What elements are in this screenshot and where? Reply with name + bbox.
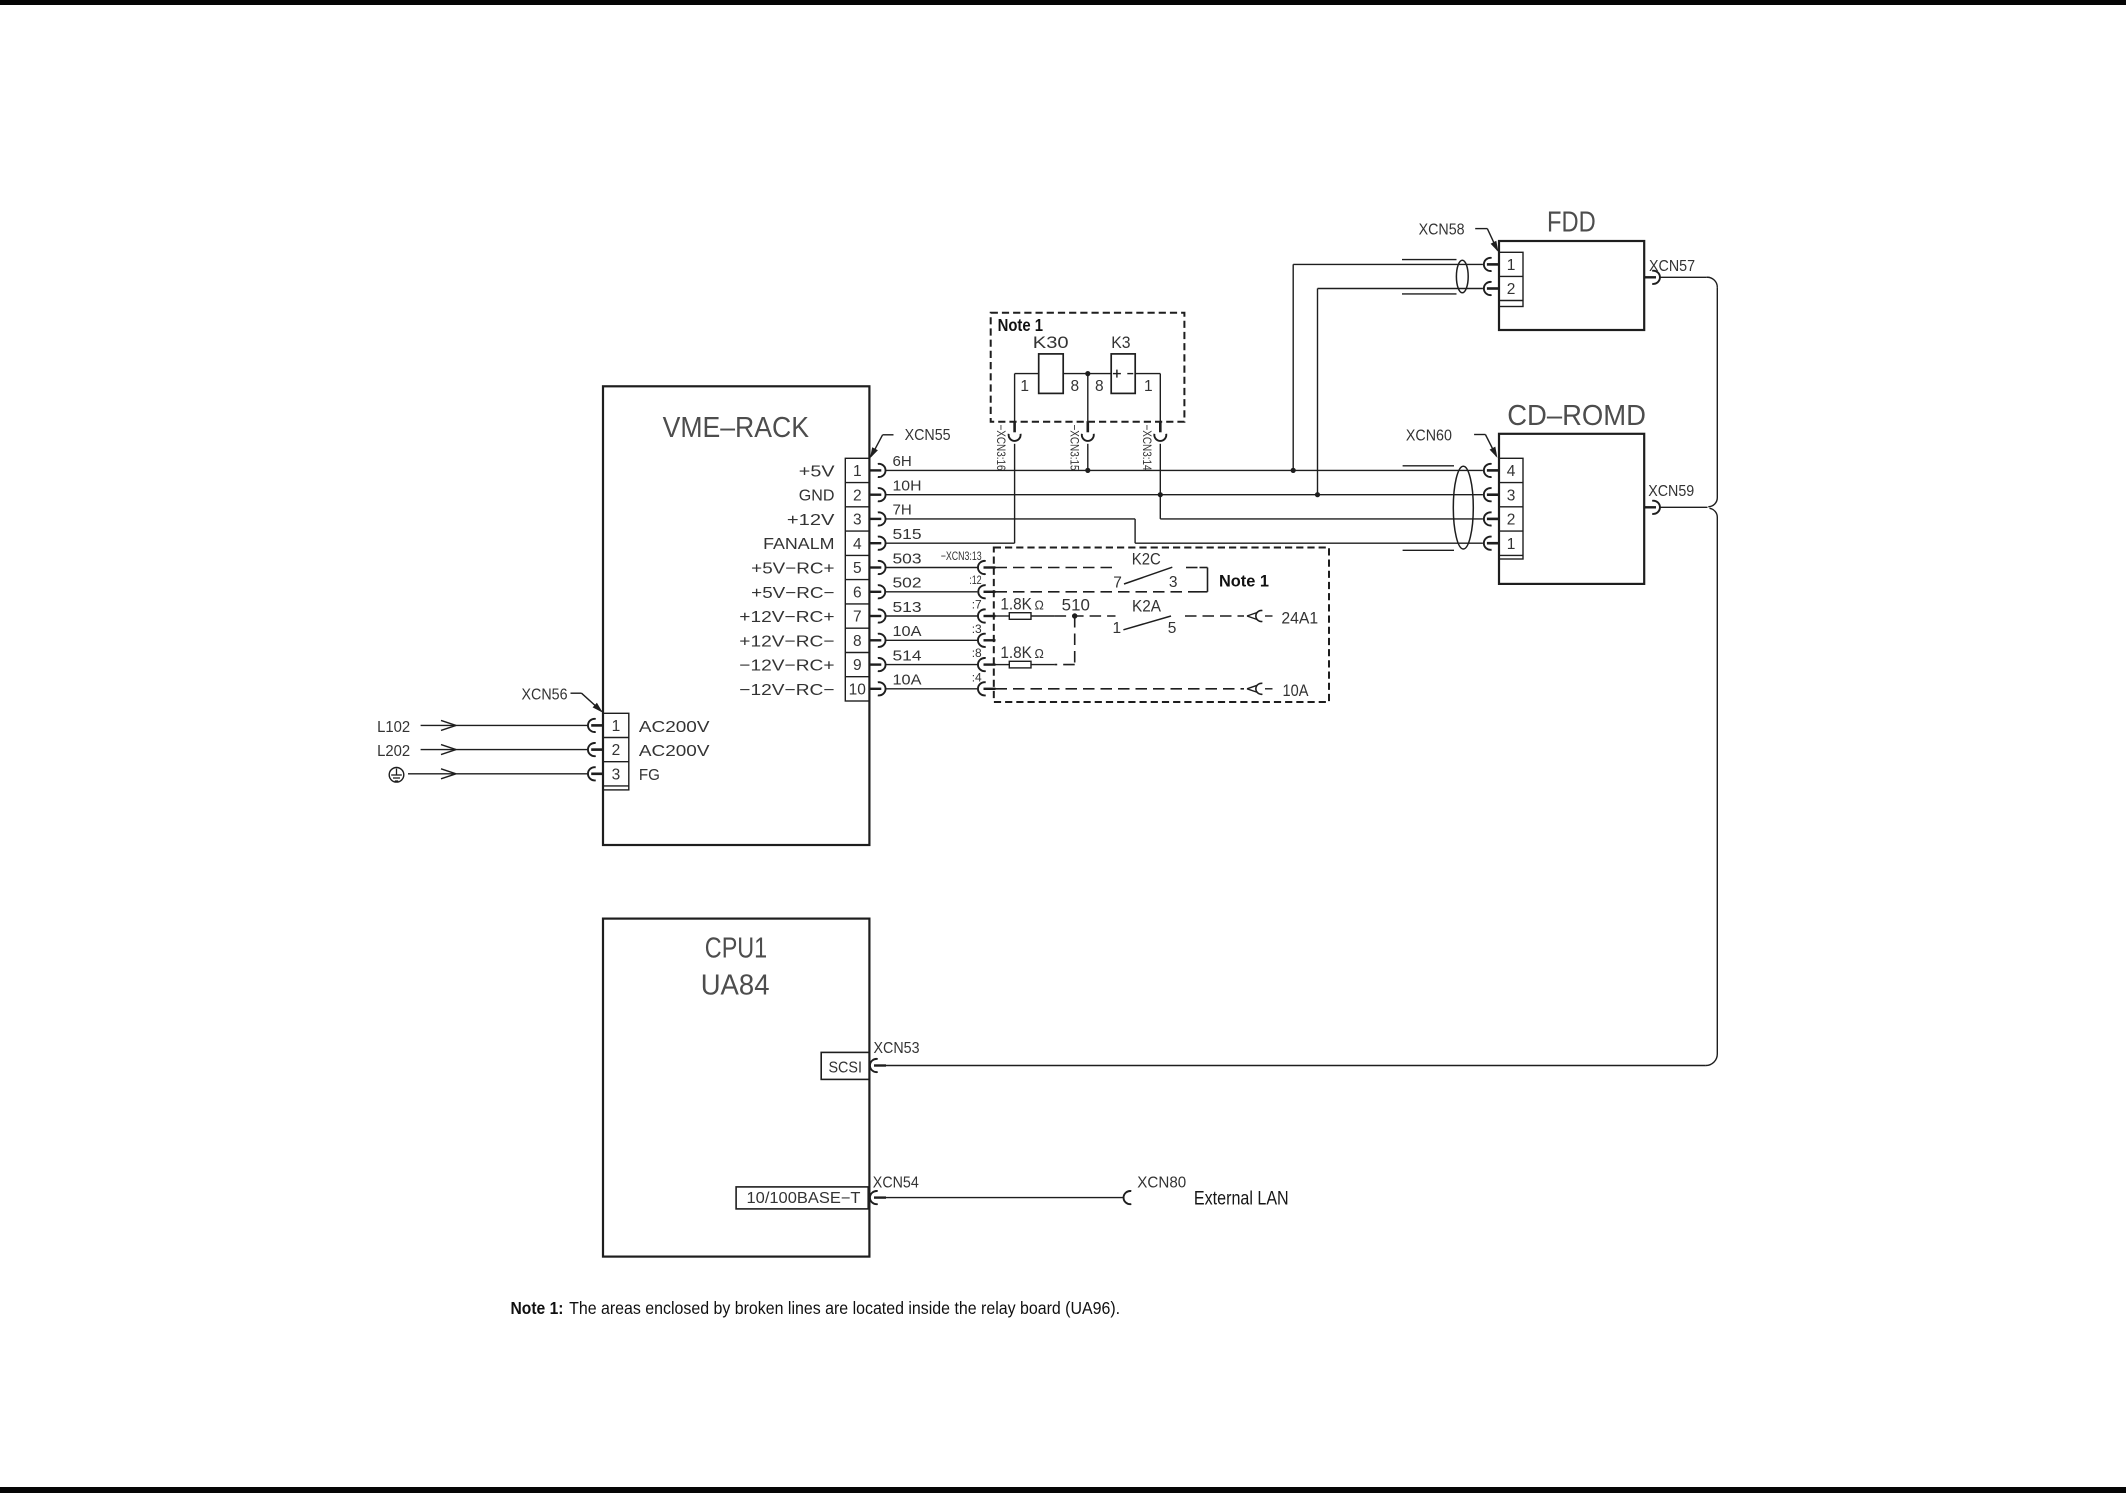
svg-text:External LAN: External LAN <box>1194 1188 1289 1209</box>
svg-text:VME–RACK: VME–RACK <box>663 412 810 444</box>
svg-text:XCN60: XCN60 <box>1406 427 1452 444</box>
svg-text:K2C: K2C <box>1132 551 1161 569</box>
svg-text:1.8K: 1.8K <box>1000 596 1032 614</box>
svg-text:10A: 10A <box>893 672 922 689</box>
svg-text:+5V−RC−: +5V−RC− <box>751 585 834 602</box>
svg-text:1: 1 <box>1507 257 1516 274</box>
svg-text::7: :7 <box>972 598 982 612</box>
svg-text:3: 3 <box>1507 487 1516 504</box>
svg-text::12: :12 <box>969 573 982 587</box>
svg-text:−12V−RC−: −12V−RC− <box>739 682 834 699</box>
svg-text:10/100BASE−T: 10/100BASE−T <box>747 1190 862 1207</box>
svg-text:K2A: K2A <box>1132 598 1161 616</box>
svg-text:8: 8 <box>1095 378 1104 395</box>
svg-text:The areas enclosed by broken l: The areas enclosed by broken lines are l… <box>569 1298 1120 1318</box>
svg-text:513: 513 <box>893 599 922 616</box>
svg-text:1: 1 <box>1020 378 1029 395</box>
svg-text:AC200V: AC200V <box>639 743 710 760</box>
svg-text:1: 1 <box>1507 536 1516 553</box>
svg-text:+12V−RC+: +12V−RC+ <box>739 609 834 626</box>
svg-text:XCN56: XCN56 <box>522 686 568 703</box>
svg-text:L102: L102 <box>377 719 410 736</box>
svg-text:FANALM: FANALM <box>763 536 834 553</box>
svg-text:L202: L202 <box>377 743 410 760</box>
svg-text:9: 9 <box>853 657 862 674</box>
svg-text:6H: 6H <box>893 453 912 470</box>
svg-text:24A1: 24A1 <box>1281 610 1318 628</box>
svg-text:3: 3 <box>853 512 862 529</box>
svg-text:+12V−RC−: +12V−RC− <box>739 633 834 650</box>
svg-text:503: 503 <box>893 550 922 567</box>
svg-text::4: :4 <box>972 670 982 684</box>
svg-text:1.8K: 1.8K <box>1000 644 1032 662</box>
svg-text:7H: 7H <box>893 502 912 519</box>
svg-text::8: :8 <box>972 646 982 660</box>
svg-text:7: 7 <box>853 609 862 626</box>
svg-text:10H: 10H <box>893 478 922 495</box>
svg-text:6: 6 <box>853 584 862 601</box>
svg-text:XCN80: XCN80 <box>1137 1175 1186 1192</box>
svg-text:Note 1: Note 1 <box>1219 572 1269 591</box>
svg-text:Note 1:: Note 1: <box>511 1298 564 1318</box>
svg-text:7: 7 <box>1113 575 1122 592</box>
svg-text:1: 1 <box>612 718 621 735</box>
svg-text:XCN54: XCN54 <box>873 1175 919 1192</box>
svg-text::3: :3 <box>972 622 982 636</box>
svg-text:−12V−RC+: −12V−RC+ <box>739 658 834 675</box>
svg-text:10A: 10A <box>1283 682 1309 700</box>
svg-text:SCSI: SCSI <box>828 1059 862 1076</box>
svg-text:Note 1: Note 1 <box>998 315 1044 335</box>
svg-text:514: 514 <box>893 647 922 664</box>
svg-text:1: 1 <box>1112 620 1121 637</box>
svg-text:2: 2 <box>612 742 621 759</box>
svg-text:+5V−RC+: +5V−RC+ <box>751 561 834 578</box>
svg-text:GND: GND <box>799 488 835 505</box>
svg-text:Ω: Ω <box>1035 647 1044 661</box>
svg-text:XCN57: XCN57 <box>1649 258 1695 275</box>
svg-text:−XCN3:15: −XCN3:15 <box>1067 425 1081 471</box>
svg-text:3: 3 <box>612 766 621 783</box>
svg-text:−XCN3:16: −XCN3:16 <box>994 425 1008 471</box>
svg-text:5: 5 <box>1168 620 1177 637</box>
svg-text:XCN53: XCN53 <box>874 1040 920 1057</box>
svg-text:UA84: UA84 <box>701 969 770 1001</box>
svg-text:2: 2 <box>1507 512 1516 529</box>
svg-text:1: 1 <box>1144 378 1153 395</box>
svg-text:8: 8 <box>853 633 862 650</box>
svg-text:510: 510 <box>1062 597 1090 615</box>
svg-text:XCN55: XCN55 <box>905 427 951 444</box>
svg-text:8: 8 <box>1071 378 1080 395</box>
svg-text:4: 4 <box>1507 463 1516 480</box>
svg-text:2: 2 <box>853 487 862 504</box>
svg-text:10A: 10A <box>893 623 922 640</box>
svg-text:FDD: FDD <box>1547 207 1596 239</box>
svg-text:CPU1: CPU1 <box>705 933 767 965</box>
svg-text:4: 4 <box>853 536 862 553</box>
svg-text:−XCN3:13: −XCN3:13 <box>941 549 982 563</box>
svg-text:K3: K3 <box>1111 334 1130 352</box>
svg-text:K30: K30 <box>1033 334 1069 352</box>
svg-text:XCN59: XCN59 <box>1648 483 1694 500</box>
svg-text:+12V: +12V <box>787 512 835 529</box>
svg-text:+5V: +5V <box>799 463 835 480</box>
svg-text:10: 10 <box>849 681 867 698</box>
svg-text:1: 1 <box>853 463 862 480</box>
svg-text:5: 5 <box>853 560 862 577</box>
svg-text:XCN58: XCN58 <box>1419 222 1465 239</box>
svg-text:2: 2 <box>1507 281 1516 298</box>
svg-text:−XCN3:14: −XCN3:14 <box>1140 425 1154 471</box>
svg-text:CD–ROMD: CD–ROMD <box>1507 400 1646 432</box>
svg-text:502: 502 <box>893 575 922 592</box>
svg-text:Ω: Ω <box>1035 599 1044 613</box>
svg-text:515: 515 <box>893 526 922 543</box>
svg-text:AC200V: AC200V <box>639 719 710 736</box>
svg-text:3: 3 <box>1169 574 1178 591</box>
svg-text:FG: FG <box>639 767 660 784</box>
